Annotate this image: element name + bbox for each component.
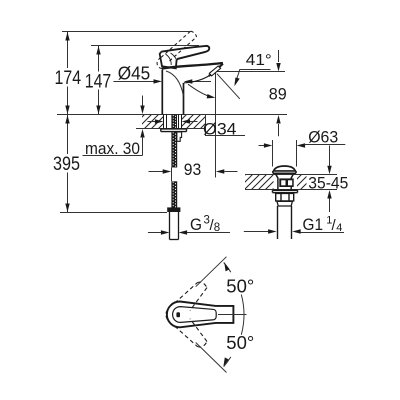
Ø34 arrows in deck xyxy=(148,121,157,123)
svg-text:G1: G1 xyxy=(303,215,324,234)
basin deck hatch left of drain xyxy=(245,175,274,189)
faucet body column xyxy=(162,70,183,115)
washer under deck xyxy=(161,129,187,132)
spout bottom curve xyxy=(184,76,209,83)
svg-text:Ø63: Ø63 xyxy=(308,128,338,147)
41° label underline xyxy=(240,69,271,71)
41° reference horizontal line xyxy=(216,71,286,73)
dimension 89 bottom arrow (outside, below) xyxy=(278,124,280,136)
mounting deck bottom line xyxy=(136,128,206,130)
svg-text:35-45: 35-45 xyxy=(308,174,348,193)
svg-text:41°: 41° xyxy=(246,52,272,69)
basin deck at drain: bottom line xyxy=(245,189,337,191)
dimension 93 left arrow xyxy=(149,171,164,173)
lever handle solid: top edge and tip xyxy=(161,46,209,60)
aerator on spout underside xyxy=(209,66,220,76)
dimension 174 arrows xyxy=(65,32,69,41)
extension line mounting deck top level xyxy=(57,114,287,116)
mounting deck hatch left xyxy=(142,115,164,129)
drain: Ø63 extension lines xyxy=(272,140,274,167)
arc arrowhead lower xyxy=(223,357,228,366)
drain shoulder xyxy=(277,201,292,206)
drain body slots xyxy=(279,178,293,187)
Ø63 underline xyxy=(305,144,346,146)
svg-text:50°: 50° xyxy=(226,333,254,353)
top view: solid handle outline xyxy=(167,302,234,328)
faucet shank in deck xyxy=(164,115,182,129)
G3/8 tube xyxy=(170,212,179,240)
top view: handle dot xyxy=(176,312,180,317)
top view: dashed handle rotated down xyxy=(166,316,207,347)
drain nut xyxy=(276,193,294,201)
svg-text:max. 30: max. 30 xyxy=(85,140,140,158)
top view: 50° arc (broken at labels) xyxy=(224,263,231,273)
dimension 395 line xyxy=(67,115,69,213)
drain washer under deck xyxy=(273,190,298,192)
top view: lower ray xyxy=(196,343,227,373)
G3/8 underline xyxy=(187,232,230,234)
spout outlet extension line (vertical) xyxy=(215,72,217,178)
extension line 147 top xyxy=(91,45,199,47)
svg-text:4: 4 xyxy=(336,222,342,234)
max.30 leader vertical xyxy=(142,137,144,156)
35-45 dimension bottom arrow xyxy=(329,198,331,212)
svg-text:174: 174 xyxy=(55,68,82,89)
flexible hose braid lower xyxy=(171,181,177,208)
drain tail pipe xyxy=(278,206,292,239)
dimension 93 right arrow xyxy=(216,169,225,173)
swing arc inside body xyxy=(166,71,183,96)
flexible hose braid upper xyxy=(171,132,177,168)
label G 3/8 xyxy=(190,214,220,234)
top view: dashed handle rotated up xyxy=(166,282,207,313)
drain dome rim xyxy=(273,171,296,173)
basin deck hatch right of drain xyxy=(297,175,307,189)
max.30 annotation: down arrow above deck xyxy=(142,96,144,106)
basin deck at drain: top line xyxy=(245,174,337,176)
extension line hose end level (395 bottom) xyxy=(60,212,167,214)
swing arc arrow on spout xyxy=(188,84,212,97)
svg-text:395: 395 xyxy=(53,154,80,175)
max.30 underline xyxy=(83,155,143,157)
hose nipple stub xyxy=(177,132,182,141)
Ø63 arrows xyxy=(259,145,266,147)
drain body in deck xyxy=(275,173,294,189)
spout underside from tip xyxy=(209,64,223,76)
G3/8 dimension arrows xyxy=(148,232,161,234)
G1 1/4 dimension arrows xyxy=(244,231,269,233)
Ø34 leader: deck corner down to underline xyxy=(206,115,246,136)
41° leader arrowhead xyxy=(234,78,239,87)
max.30 up arrow below deck xyxy=(140,129,144,138)
41° angled line xyxy=(217,74,240,99)
svg-text:147: 147 xyxy=(85,71,112,92)
dimension 395 arrows xyxy=(65,115,69,124)
lever interior detail xyxy=(166,53,177,65)
Ø45 tail right xyxy=(192,81,211,83)
dimension 147 line xyxy=(98,46,100,115)
mounting deck hatch right xyxy=(182,115,206,129)
Ø45 leader line left xyxy=(113,81,155,83)
top view: handle inner contour xyxy=(173,307,217,323)
41° leader curve xyxy=(235,70,240,84)
hose connector nut xyxy=(167,207,180,212)
lever raised dashed outline xyxy=(157,31,196,68)
svg-text:G: G xyxy=(190,215,202,234)
dimension 89 top arrow (outside, above) xyxy=(278,50,280,62)
hose thin line through gap xyxy=(171,168,173,182)
drain dome cap xyxy=(274,166,295,171)
lever grip front face xyxy=(160,52,177,69)
spout top edge xyxy=(162,63,223,69)
svg-text:Ø45: Ø45 xyxy=(118,63,151,83)
svg-text:50°: 50° xyxy=(226,276,254,296)
top view: centerline xyxy=(218,314,247,316)
35-45 dimension top arrow xyxy=(329,146,331,167)
Ø45 right arrow xyxy=(184,79,193,83)
arc arrowhead upper xyxy=(224,262,229,271)
extension line top (174 top, lever raised tip) xyxy=(62,31,190,33)
Ø45 left arrow xyxy=(154,79,163,83)
svg-text:Ø34: Ø34 xyxy=(203,119,237,138)
svg-text:89: 89 xyxy=(269,85,287,104)
svg-text:93: 93 xyxy=(184,160,202,179)
top view: upper ray xyxy=(196,257,227,287)
label G1 1/4 xyxy=(303,214,343,234)
svg-text:8: 8 xyxy=(214,222,220,234)
dimension 147 arrows xyxy=(96,46,100,55)
dimension 174 line xyxy=(67,32,69,115)
threaded stud xyxy=(171,115,177,129)
G1 1/4 underline xyxy=(301,232,345,234)
